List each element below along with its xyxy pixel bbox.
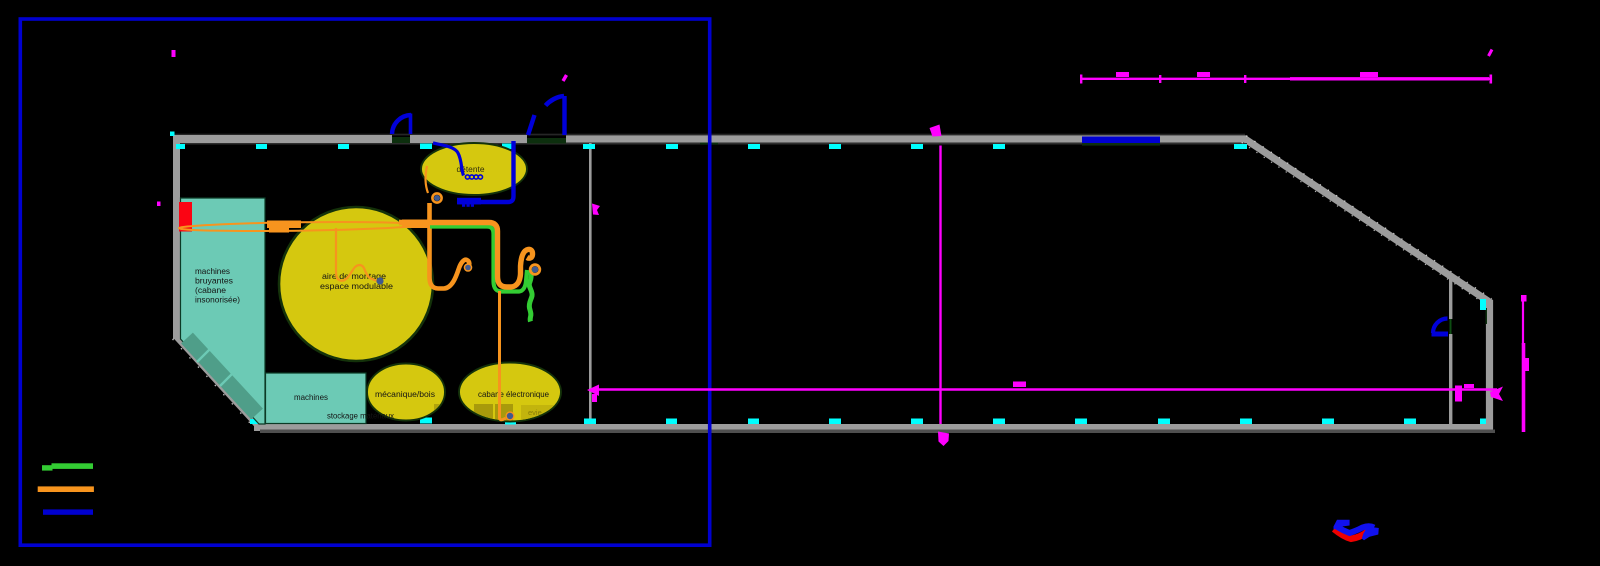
orange ring marker right (top of green squiggle) <box>530 265 540 275</box>
cyan tick b12 <box>1158 419 1170 425</box>
wall: right diagonal white speckles upper <box>1246 136 1492 299</box>
cyan tick b9 <box>911 419 923 425</box>
cabane interior sink box (evier) <box>521 405 555 421</box>
magenta vertical dimension line x=941 <box>939 146 941 425</box>
green squiggle vertical <box>529 270 532 322</box>
blue door sill right <box>1432 332 1449 337</box>
orange thin drop line in big circle <box>336 228 379 281</box>
insulation strip divider 2 <box>220 371 235 386</box>
svg-text:mécanique/bois: mécanique/bois <box>375 389 436 399</box>
wall: top-left segment <box>173 135 392 143</box>
cyan tick b6 <box>666 419 677 425</box>
orange long vertical from detente to S-curve <box>430 203 470 289</box>
magenta h-dim left blob <box>592 394 597 402</box>
blue door 2 diagonal stroke <box>528 115 535 135</box>
magenta top dimension line <box>1081 78 1492 80</box>
blue door arc right (partition 2) <box>1433 319 1448 334</box>
cyan tick corner <box>170 132 175 137</box>
magenta top dim tick 1 <box>1159 75 1161 83</box>
magenta arrow at partition 1 upper <box>592 204 600 216</box>
magenta top dim left cap <box>1080 75 1082 84</box>
blue label block <box>457 198 481 205</box>
blue label drips <box>462 204 465 206</box>
cyan tick t1 <box>176 144 185 149</box>
green cable: horizontal + U + rise <box>430 227 527 292</box>
orange hook into detente <box>426 166 428 193</box>
blue door arc 1 <box>392 115 411 134</box>
survey blue rectangle <box>20 19 709 545</box>
door lintel dark green: door 2 <box>527 138 566 144</box>
magenta top dim label 3 <box>1360 72 1378 77</box>
blue curve into detente <box>433 143 464 176</box>
cyan tick b0 <box>250 419 260 424</box>
cyan tick bottom-right square <box>1480 419 1486 425</box>
orange thick bar A2 <box>269 228 289 233</box>
dark green dash near blue frame crossing <box>700 143 718 145</box>
magenta h-dim marks at partition 2 <box>1455 386 1462 402</box>
magenta top dim thicker overdraw <box>1290 77 1489 80</box>
slate dot right marker <box>532 266 538 272</box>
3D S arrow: blue right end <box>1362 527 1379 541</box>
blue door jamb 2 <box>562 96 566 135</box>
orange ring marker at detente <box>432 193 441 202</box>
orange cable: thick horizontal + corner + U + loop <box>399 223 533 288</box>
orange ring marker at cabane <box>506 412 513 419</box>
cyan tick b3 <box>420 418 432 424</box>
cyan tick t5 <box>502 144 514 150</box>
cyan tick t12 <box>1234 144 1247 149</box>
magenta top dim tick 2 <box>1244 75 1246 83</box>
svg-text:machines: machines <box>294 392 329 402</box>
orange thick bar A <box>267 221 301 229</box>
magenta apostrophe above door 2 <box>563 75 567 81</box>
cyan tick t8 <box>748 144 760 149</box>
magenta top dim label 2 <box>1197 72 1210 77</box>
cyan tick b4 <box>505 419 516 425</box>
cyan tick b8 <box>829 419 841 425</box>
blue door 2 arc <box>546 96 565 106</box>
wall: partition 2 upper <box>1449 276 1452 319</box>
svg-text:cabane électronique: cabane électronique <box>478 389 549 399</box>
cyan tick b5 <box>584 419 596 425</box>
slate dot mid marker <box>465 265 471 271</box>
magenta right v-dim blob <box>1524 358 1530 371</box>
3D S arrow: blue top-left tab <box>1334 520 1350 530</box>
orange ring marker mid <box>465 264 472 271</box>
cyan tick b14 <box>1322 419 1334 425</box>
wall: partition 2 lower <box>1449 334 1452 424</box>
mecanique interior dark box <box>434 404 447 421</box>
magenta top blob of v-line <box>930 125 942 137</box>
door lintel dark green: door 1 <box>392 137 410 143</box>
wall: partition 1 <box>589 143 592 424</box>
ellipse: cabane electronique <box>459 363 561 422</box>
magenta h-dim right arrow blob <box>1490 387 1503 402</box>
cabane interior dark box 2 <box>495 404 513 421</box>
legend green line <box>42 465 53 470</box>
cyan tick t3 <box>338 144 349 149</box>
wall: top long segment + right diagonal + right vertical <box>566 139 1490 429</box>
cyan tick b1 <box>264 420 272 425</box>
3D S arrow: blue top ribbon <box>1337 526 1375 533</box>
magenta tick left wall <box>157 202 161 207</box>
cabane interior dark box 1 <box>474 404 493 421</box>
orange thick chunk before vertical <box>402 220 429 229</box>
red block <box>179 202 192 232</box>
magenta top dim label 1 <box>1116 72 1129 77</box>
wall: left <box>173 135 180 339</box>
svg-text:(cabane: (cabane <box>195 285 226 295</box>
legend blue line <box>43 509 93 514</box>
dark green: right wall inner line <box>1486 308 1488 324</box>
wall: left diagonal <box>177 336 259 425</box>
3D S arrow: red base <box>1334 529 1368 539</box>
svg-text:insonorisée): insonorisée) <box>195 295 240 305</box>
wall: bottom <box>254 424 1493 431</box>
cyan tick t7 <box>666 144 678 149</box>
wall: top edge dark line <box>173 143 1247 145</box>
magenta tick top-left <box>172 50 176 57</box>
magenta h-dim label mid <box>1013 382 1026 388</box>
svg-text:bruyantes: bruyantes <box>195 276 234 286</box>
magenta bottom marks of v-line <box>938 432 949 447</box>
magenta right v-dim top knob <box>1521 295 1527 302</box>
big circle: aire de montage <box>279 207 433 361</box>
ellipse: mecanique/bois <box>367 364 445 421</box>
cyan tick t10 <box>911 144 923 149</box>
magenta top dim right cap <box>1490 75 1493 84</box>
wall: right diagonal white speckles lower <box>1242 142 1488 305</box>
legend orange line <box>38 486 94 492</box>
cyan tick b15 <box>1404 419 1416 425</box>
wall: top edge dark line above <box>173 134 1245 136</box>
wall: bottom shadow band <box>260 430 1495 434</box>
cyan ticks top row <box>170 132 1486 425</box>
cyan tick b13 <box>1240 419 1252 425</box>
room: machines bruyantes (teal polygon) <box>181 198 266 424</box>
dark green under blue wall segment <box>1082 143 1160 146</box>
cyan tick b10 <box>993 419 1005 425</box>
cyan tick b11 <box>1075 419 1087 425</box>
wall: top segment between doors <box>410 135 527 143</box>
cyan tick b2 <box>338 419 349 424</box>
orange flat ellipse (cable loop) <box>179 221 417 233</box>
cyan tick t2 <box>256 144 267 149</box>
blue thick L line from wall to label <box>458 141 514 202</box>
cyan tick t6 <box>583 144 595 149</box>
blue door jamb 1 <box>409 114 413 135</box>
cyan tick t9 <box>829 144 841 149</box>
cyan tick right wall vertical <box>1480 299 1486 310</box>
magenta right vertical dimension line <box>1522 297 1524 345</box>
room: machines / stockage (teal rect) <box>266 373 367 424</box>
cyan tick b7 <box>748 419 759 425</box>
slate dot on modulable <box>376 277 383 284</box>
blue wall segment on top wall <box>1082 137 1160 144</box>
wall: left diagonal white speckles <box>173 339 255 428</box>
orange vertical down to cabane electronique <box>500 291 506 420</box>
ellipse: detente <box>421 143 527 195</box>
magenta horizontal dimension line y=389.5 <box>594 388 1497 391</box>
blue oooo scribble <box>465 175 482 179</box>
cyan tick t11 <box>993 144 1005 149</box>
svg-text:stockage matériaux: stockage matériaux <box>327 411 395 421</box>
cyan tick t4 <box>420 144 432 150</box>
insulation strips (dark teal band along diagonal) <box>187 338 257 414</box>
svg-text:machines: machines <box>195 266 231 276</box>
magenta apostrophe top right <box>1489 50 1493 57</box>
dark green: partition 2 door edge <box>1450 319 1452 334</box>
insulation strip divider 1 <box>197 347 212 362</box>
magenta h-dim left arrow <box>587 385 599 397</box>
slate dot at cabane marker <box>507 413 513 419</box>
slate dot at detente marker <box>434 195 440 201</box>
